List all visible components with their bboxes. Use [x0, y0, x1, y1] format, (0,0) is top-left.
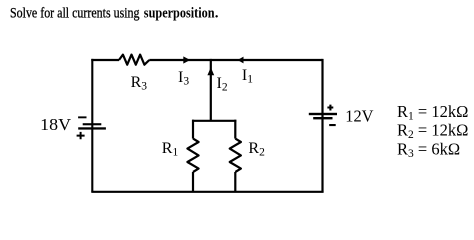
- svg-text:R1: R1: [162, 140, 179, 159]
- svg-text:R2: R2: [248, 140, 265, 159]
- svg-text:superposition: superposition: [144, 5, 215, 21]
- wire: left side vertical: [91, 59, 93, 192]
- battery V2 polarity plus: [327, 105, 333, 111]
- battery V1 18V: short (negative) top plate: [83, 123, 102, 125]
- svg-text:18V: 18V: [40, 115, 71, 134]
- battery V1 polarity plus: [77, 132, 85, 139]
- svg-text:R3: R3: [131, 74, 148, 93]
- svg-text:I1: I1: [242, 67, 253, 86]
- resistor R2: [230, 139, 241, 172]
- battery V1 polarity minus: [78, 116, 86, 118]
- battery V2 12V: short (negative) bottom plate: [313, 117, 332, 119]
- wire: right side vertical: [321, 59, 323, 192]
- wire: R1 branch upper segment: [192, 120, 194, 139]
- svg-text:12V: 12V: [345, 107, 373, 126]
- battery V1 18V: long (positive) bottom plate: [78, 127, 106, 129]
- current arrow I1: [238, 57, 244, 64]
- wire: R2 branch lower segment: [234, 172, 236, 192]
- svg-text:I2: I2: [217, 75, 228, 94]
- wire: top segment from node A to top-right corner: [211, 59, 323, 61]
- resistor R3: [119, 55, 149, 65]
- wire: R1 branch lower segment: [192, 172, 194, 192]
- wire: parallel-branch top bar: [192, 120, 236, 122]
- svg-text:R3 = 6kΩ: R3 = 6kΩ: [397, 139, 460, 160]
- current arrow I3: [183, 56, 190, 63]
- wire: top-left segment (left corner to R3): [91, 59, 119, 61]
- wire: R2 branch upper segment: [234, 120, 236, 139]
- svg-text:.: .: [215, 5, 219, 21]
- wire: middle branch vertical: [210, 59, 212, 121]
- battery V2 polarity minus: [329, 124, 336, 126]
- wire: top segment from R3 to node A: [149, 59, 211, 61]
- current arrow I2: [207, 67, 214, 75]
- battery V2 12V: long (positive) top plate: [309, 113, 337, 115]
- wire: bottom: [91, 191, 323, 193]
- resistor R1: [187, 139, 198, 172]
- svg-text:Solve for all currents using: Solve for all currents using: [10, 5, 140, 21]
- svg-text:I3: I3: [178, 69, 189, 88]
- svg-text:R2 = 12kΩ: R2 = 12kΩ: [397, 120, 468, 141]
